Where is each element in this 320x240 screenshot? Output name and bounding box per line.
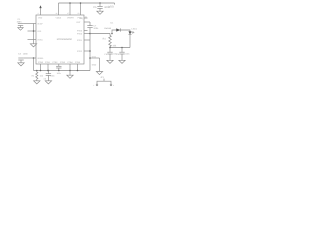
node junction dot bbox=[89, 50, 91, 52]
node junction dot bbox=[58, 70, 60, 72]
svg-text:PTB3: PTB3 bbox=[60, 61, 66, 64]
svg-text:VSSA: VSSA bbox=[37, 38, 43, 41]
node junction dot bbox=[111, 33, 113, 35]
svg-text:PTB0: PTB0 bbox=[38, 61, 44, 64]
diode D1 bbox=[116, 28, 120, 31]
svg-text:100n: 100n bbox=[23, 53, 29, 56]
node junction dot bbox=[69, 70, 71, 72]
bus end tick bbox=[114, 3, 116, 5]
wire top supply bus bbox=[59, 2, 115, 4]
capacitor C6 bbox=[97, 3, 102, 11]
capacitor C3 bbox=[18, 58, 23, 63]
wire VSS pin branch bbox=[90, 57, 100, 59]
resistor R1 bbox=[109, 34, 112, 48]
svg-text:VREFL: VREFL bbox=[37, 57, 44, 60]
node junction dot bbox=[33, 30, 35, 32]
node junction dot bbox=[33, 57, 35, 59]
svg-text:PTB2: PTB2 bbox=[53, 61, 59, 64]
LED LED1 bbox=[129, 31, 135, 34]
svg-text:VCAP: VCAP bbox=[37, 22, 43, 25]
power VDD arrow symbol bbox=[39, 5, 41, 8]
node junction dot bbox=[121, 47, 123, 49]
wire right pin bbox=[84, 33, 90, 35]
svg-text:D1: D1 bbox=[111, 22, 115, 25]
svg-text:10k: 10k bbox=[40, 74, 43, 77]
svg-text:PTD3: PTD3 bbox=[77, 29, 83, 32]
capacitor C2 bbox=[46, 70, 51, 81]
capacitor C1 bbox=[18, 24, 23, 28]
ground bbox=[119, 60, 125, 63]
capacitor C5 bbox=[56, 64, 61, 71]
node junction dot bbox=[77, 70, 79, 72]
wire right rail lower bbox=[89, 28, 91, 71]
node junction dot bbox=[109, 47, 111, 49]
svg-text:PTB1: PTB1 bbox=[45, 61, 51, 64]
svg-text:IRQ: IRQ bbox=[80, 17, 84, 20]
wire bottom ground bus bbox=[34, 70, 91, 72]
svg-text:1: 1 bbox=[93, 84, 94, 87]
wire top pin VDD bbox=[40, 8, 42, 15]
svg-text:RST: RST bbox=[77, 21, 82, 24]
capacitor C8 bbox=[107, 48, 112, 61]
svg-text:C6: C6 bbox=[93, 6, 97, 9]
ground bbox=[18, 28, 23, 31]
svg-text:VDDA: VDDA bbox=[56, 16, 62, 19]
svg-text:37: 37 bbox=[67, 12, 69, 15]
svg-text:R1: R1 bbox=[103, 37, 107, 40]
node junction dot bbox=[69, 2, 71, 4]
ground bbox=[34, 81, 40, 84]
svg-text:21: 21 bbox=[56, 12, 58, 15]
svg-text:VSS: VSS bbox=[37, 30, 42, 33]
wire left pin bbox=[28, 38, 37, 40]
capacitor C7 bbox=[87, 26, 92, 28]
wire left pin bbox=[28, 30, 37, 32]
wire right pin bbox=[84, 50, 90, 52]
svg-text:100n: 100n bbox=[93, 27, 99, 30]
svg-text:PTD1: PTD1 bbox=[77, 39, 83, 42]
wire right pin bbox=[84, 39, 90, 41]
wire lower rail bbox=[110, 47, 130, 49]
ground bbox=[18, 63, 24, 66]
svg-text:2: 2 bbox=[113, 84, 114, 87]
node junction dot bbox=[40, 70, 42, 72]
wire diode to LED bbox=[120, 30, 130, 31]
capacitor C9 bbox=[119, 48, 124, 61]
ground bbox=[30, 44, 36, 47]
wire right ground rail bbox=[89, 22, 91, 26]
wire diode branch bbox=[112, 30, 116, 34]
svg-text:C2: C2 bbox=[44, 77, 46, 80]
wire right pin short bbox=[84, 30, 88, 32]
wire C3 to pin bbox=[24, 57, 36, 59]
svg-text:PTB5: PTB5 bbox=[75, 61, 81, 64]
svg-text:53: 53 bbox=[78, 12, 80, 15]
svg-text:MC9S08AW60: MC9S08AW60 bbox=[57, 38, 73, 41]
svg-text:10k: 10k bbox=[112, 44, 117, 47]
wire left rail to bottom bus bbox=[33, 58, 35, 71]
ground bbox=[107, 60, 113, 63]
wire LED to rail bbox=[129, 35, 131, 48]
ground bbox=[67, 71, 73, 79]
svg-text:PTD2: PTD2 bbox=[77, 50, 83, 53]
wire bottom pin bbox=[69, 64, 71, 71]
ground bbox=[97, 11, 103, 14]
IC U1 body bbox=[36, 15, 84, 64]
svg-text:100n: 100n bbox=[125, 53, 129, 56]
wire top pin to bus bbox=[69, 3, 71, 15]
connector JP1 bbox=[96, 79, 112, 86]
svg-text:2: 2 bbox=[38, 12, 39, 15]
wire bottom pin bbox=[47, 64, 49, 71]
wire bottom pin bbox=[77, 64, 79, 71]
svg-text:GND: GND bbox=[92, 64, 97, 67]
node junction dot bbox=[80, 2, 82, 4]
svg-text:C3: C3 bbox=[18, 53, 22, 56]
svg-text:100n: 100n bbox=[57, 72, 61, 75]
svg-text:PTD0: PTD0 bbox=[77, 32, 83, 35]
node junction dot bbox=[99, 2, 101, 4]
svg-text:VREFH: VREFH bbox=[67, 16, 74, 19]
wire right pin NC bbox=[84, 17, 88, 19]
wire top pin to bus bbox=[80, 3, 82, 15]
wire down to ground bbox=[99, 58, 101, 71]
svg-text:R2: R2 bbox=[32, 75, 35, 78]
svg-text:63: 63 bbox=[85, 15, 87, 18]
svg-text:VDD: VDD bbox=[109, 5, 114, 8]
svg-text:PTB4: PTB4 bbox=[68, 61, 74, 64]
wire left rail bbox=[33, 24, 35, 44]
svg-text:100n: 100n bbox=[17, 20, 23, 23]
svg-text:VDD: VDD bbox=[38, 16, 43, 19]
node junction dot bbox=[89, 57, 91, 59]
wire to R1 bbox=[90, 33, 110, 35]
wire C1 to pin bbox=[23, 23, 36, 25]
ground bbox=[45, 81, 51, 84]
wire right pin RESET bbox=[84, 21, 90, 23]
node junction dot bbox=[47, 70, 49, 72]
wire top pin to bus bbox=[58, 3, 60, 15]
wire bottom pin bbox=[40, 64, 42, 71]
resistor R2 bbox=[36, 70, 38, 81]
svg-text:LED1: LED1 bbox=[132, 28, 138, 31]
svg-text:1N4148: 1N4148 bbox=[104, 27, 112, 30]
svg-text:100n: 100n bbox=[50, 74, 54, 77]
node junction dot bbox=[89, 33, 91, 35]
ground bbox=[96, 72, 102, 75]
